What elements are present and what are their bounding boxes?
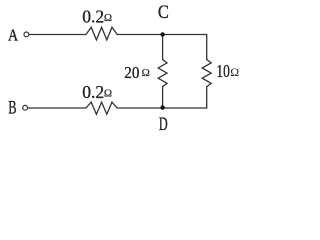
svg-text:10: 10 <box>216 61 230 81</box>
svg-text:C: C <box>158 2 169 23</box>
svg-text:20: 20 <box>124 63 139 82</box>
svg-text:A: A <box>8 25 19 44</box>
svg-text:Ω: Ω <box>104 88 112 100</box>
svg-text:D: D <box>159 115 168 135</box>
svg-text:0.2: 0.2 <box>82 82 104 102</box>
svg-text:Ω: Ω <box>142 67 150 79</box>
svg-text:0.2: 0.2 <box>82 6 104 26</box>
svg-text:B: B <box>8 98 16 118</box>
svg-text:Ω: Ω <box>230 65 239 79</box>
svg-text:Ω: Ω <box>104 12 112 24</box>
